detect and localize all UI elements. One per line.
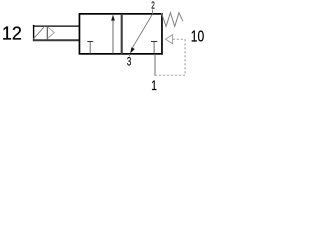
port 2 stub [152,9,154,14]
right square: blocked port (T) [151,42,157,54]
valve position divider [121,14,123,54]
pilot dashed line bottom horizontal to port 1 [155,74,185,76]
svg-text:2: 2 [151,0,155,11]
port 3 stub [129,54,131,57]
right square: flow path 2->3 with arrow [130,14,152,53]
port 1 connection line [154,54,156,76]
pilot dashed line horizontal from triangle [173,38,185,40]
node 12 label [2,24,22,44]
svg-text:10: 10 [191,29,204,46]
solenoid diagonal stroke [33,26,44,39]
pilot dashed line vertical [184,39,186,75]
valve body outline [79,14,162,54]
left square: flow arrow 1->2 [111,15,115,54]
return spring [161,13,183,27]
svg-text:3: 3 [127,56,131,68]
left square: blocked port (T) [87,42,93,54]
solenoid pilot box [33,25,80,41]
svg-text:12: 12 [2,24,22,44]
pilot triangle (right side, internal pilot) [166,35,173,44]
pilot amplifier triangle (in pilot box) [48,27,55,39]
svg-text:1: 1 [151,77,157,93]
